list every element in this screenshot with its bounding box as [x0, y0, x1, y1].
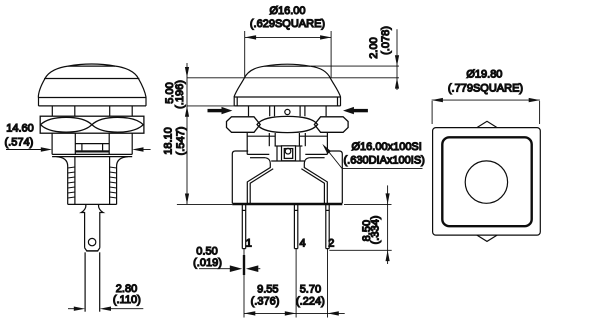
- svg-text:5.70: 5.70: [300, 283, 321, 295]
- middle view right mounting ear: [326, 151, 342, 203]
- middle view pin 4: [294, 205, 297, 249]
- pin 2 extension line: [327, 249, 329, 318]
- left view cap skirt: [39, 98, 147, 106]
- extension line base bottom right: [344, 203, 392, 205]
- svg-text:(.779SQUARE): (.779SQUARE): [448, 83, 523, 95]
- push direction arrow right: [343, 107, 368, 114]
- svg-text:1: 1: [246, 237, 252, 249]
- dimension 14.60 (.574): [6, 147, 151, 151]
- dimension 5.00 text: [164, 80, 186, 109]
- middle view pin 2: [326, 205, 329, 249]
- svg-text:18.10: 18.10: [163, 127, 175, 155]
- left view hex nut (side): [40, 116, 144, 133]
- dimension O19.80 lines: [432, 98, 540, 124]
- top view orientation key top: [477, 121, 497, 127]
- dimension 14.60 text: [5, 123, 34, 149]
- svg-text:2.00: 2.00: [368, 37, 380, 58]
- svg-text:2: 2: [328, 237, 334, 249]
- svg-text:(.110): (.110): [113, 294, 141, 306]
- left view stem lower: [85, 252, 100, 311]
- left view stem upper with barb: [81, 204, 103, 248]
- middle view pin 1: [242, 205, 245, 249]
- svg-text:9.55: 9.55: [257, 283, 278, 295]
- middle view cap skirt: [234, 97, 340, 106]
- dimension 5.00 / 18.10 vertical line: [185, 63, 189, 204]
- middle view left mounting ear: [232, 151, 248, 203]
- svg-text:(.224): (.224): [296, 295, 325, 307]
- middle view dome cap: [234, 64, 341, 97]
- left view threaded neck: [57, 157, 128, 205]
- dimension 2.00 (.078): [395, 29, 399, 90]
- svg-text:14.60: 14.60: [6, 123, 34, 135]
- extension line pin end right: [329, 249, 391, 251]
- extension line cap skirt bottom: [187, 105, 234, 107]
- top view button square: [442, 137, 531, 226]
- svg-text:(.629SQUARE): (.629SQUARE): [250, 18, 325, 30]
- dimension 2.80 text: [113, 283, 141, 306]
- left view dome cap: [38, 64, 146, 98]
- svg-text:(.574): (.574): [5, 136, 34, 148]
- middle view body below nut: [247, 133, 327, 154]
- svg-text:(.376): (.376): [251, 295, 280, 307]
- left view thread ticks: [68, 167, 117, 198]
- dimension 0.50 (.019): [199, 265, 260, 272]
- dimension 18.10 text: [163, 127, 188, 156]
- middle view bushing: [249, 106, 327, 116]
- dimension O16.00 lines: [245, 31, 332, 77]
- dimension O16.00 (.629SQUARE) text: [250, 5, 325, 30]
- dimension 0.50 text: [193, 246, 222, 269]
- svg-text:(.196): (.196): [174, 80, 186, 109]
- svg-text:(.334): (.334): [370, 216, 382, 245]
- dimension 2.00 text: [368, 26, 392, 59]
- dimension O19.80 text: [448, 69, 523, 95]
- svg-text:(.078): (.078): [380, 26, 392, 55]
- svg-text:Ø16.00x100SI: Ø16.00x100SI: [352, 141, 422, 153]
- extension line base bottom left: [177, 203, 232, 205]
- middle view plunger latch: [271, 146, 305, 161]
- dimension 9.55 text: [251, 283, 280, 307]
- left view flange band: [52, 154, 132, 156]
- leader note O16.00x100SI: [322, 141, 425, 169]
- middle view base: [232, 203, 342, 204]
- dimension 8.50 text: [361, 216, 382, 245]
- middle view hex nut left facet: [227, 117, 261, 133]
- top view outer square: [433, 128, 541, 236]
- top view center circle: [465, 161, 507, 203]
- left view stem chamfer: [85, 248, 100, 251]
- left view latch detail: [75, 144, 109, 153]
- middle view hex nut front facet: [257, 116, 318, 132]
- dimension 9.55 / 5.70 line: [244, 311, 345, 315]
- middle view index hole: [285, 109, 290, 114]
- svg-text:0.50: 0.50: [196, 246, 217, 258]
- extension line cap shoulder: [187, 77, 399, 79]
- svg-text:Ø16.00: Ø16.00: [269, 5, 305, 17]
- dimension 8.50 (.334): [386, 185, 390, 264]
- push direction arrow left: [208, 107, 233, 114]
- dimension 5.70 text: [296, 283, 325, 307]
- svg-text:4: 4: [299, 237, 305, 249]
- svg-text:(.019): (.019): [193, 257, 222, 269]
- pin 1 extension line: [243, 249, 245, 318]
- svg-text:(.630DIAx100IS): (.630DIAx100IS): [344, 154, 425, 166]
- dimension 2.80 (.110): [68, 307, 143, 311]
- left view bushing between cap and nut: [52, 106, 132, 116]
- left view body section (14.60 wide): [52, 133, 132, 154]
- svg-text:Ø19.80: Ø19.80: [466, 69, 502, 81]
- left view stem hole: [88, 238, 95, 245]
- top view orientation key bottom: [477, 235, 497, 241]
- middle view lower skirt: [247, 158, 327, 204]
- svg-text:(.547): (.547): [175, 127, 187, 156]
- middle view hex nut right facet: [314, 117, 348, 133]
- extension line top of cap: [310, 65, 399, 67]
- pin 4 extension line: [295, 249, 297, 318]
